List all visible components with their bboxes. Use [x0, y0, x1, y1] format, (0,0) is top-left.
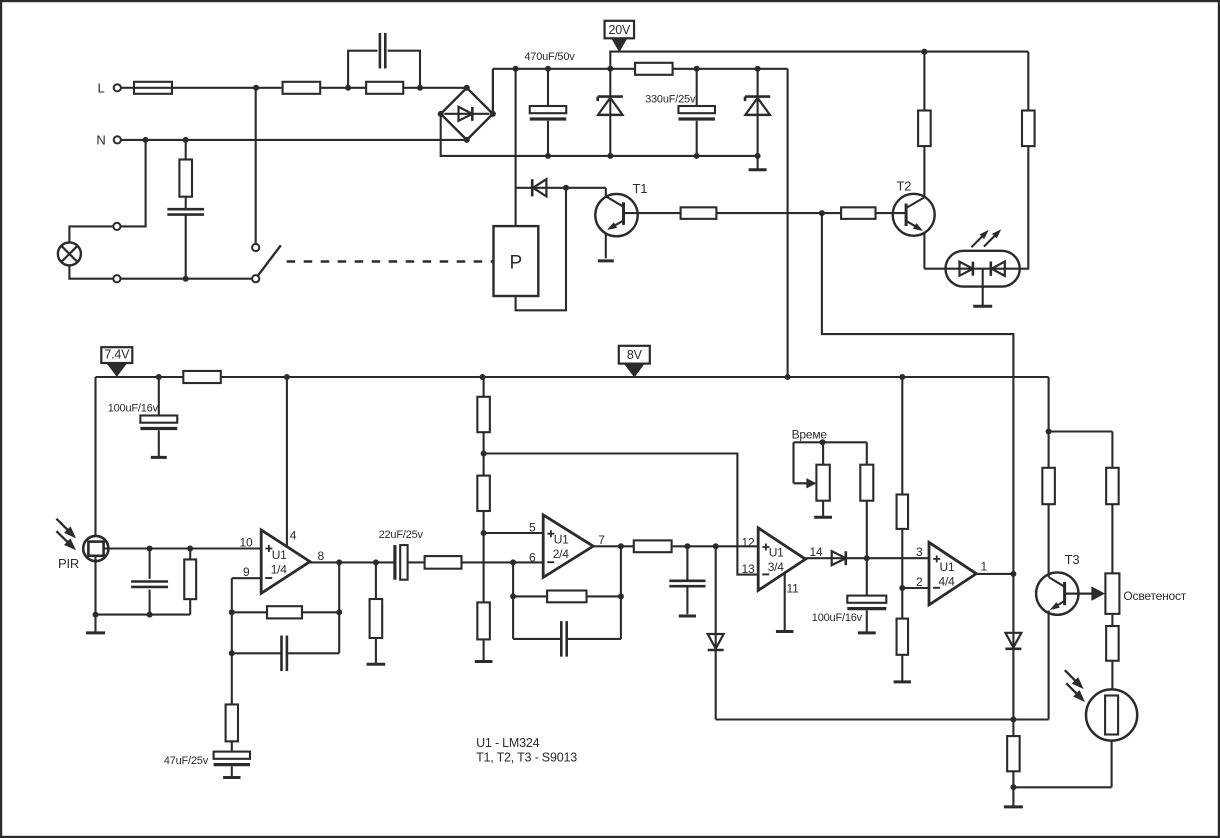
svg-text:12: 12 [742, 536, 755, 550]
svg-text:3/4: 3/4 [768, 560, 785, 574]
svg-text:8: 8 [318, 549, 325, 563]
svg-text:N: N [96, 133, 105, 148]
svg-text:U1: U1 [940, 560, 955, 574]
svg-text:100uF/16v: 100uF/16v [108, 402, 159, 414]
svg-text:P: P [510, 253, 523, 274]
svg-text:T2: T2 [897, 179, 912, 194]
svg-text:47uF/25v: 47uF/25v [164, 755, 209, 767]
svg-text:20V: 20V [608, 23, 631, 37]
svg-text:2: 2 [916, 575, 923, 589]
svg-text:T1, T2, T3 - S9013: T1, T2, T3 - S9013 [476, 750, 577, 764]
svg-text:2/4: 2/4 [553, 547, 570, 561]
svg-text:22uF/25v: 22uF/25v [379, 529, 424, 541]
svg-text:14: 14 [810, 545, 823, 559]
svg-text:U1: U1 [554, 533, 569, 547]
svg-text:8V: 8V [627, 348, 643, 362]
svg-text:PIR: PIR [58, 556, 79, 571]
svg-text:100uF/16v: 100uF/16v [812, 612, 863, 624]
svg-text:4: 4 [290, 529, 297, 543]
svg-text:U1 - LM324: U1 - LM324 [476, 736, 540, 750]
svg-text:L: L [97, 81, 104, 96]
svg-text:6: 6 [529, 551, 536, 565]
svg-text:330uF/25v: 330uF/25v [645, 94, 696, 106]
svg-text:1: 1 [981, 560, 988, 574]
svg-text:7.4V: 7.4V [104, 348, 130, 362]
svg-text:1/4: 1/4 [271, 563, 288, 577]
svg-text:U1: U1 [272, 548, 287, 562]
svg-text:5: 5 [529, 520, 536, 534]
svg-text:7: 7 [598, 533, 605, 547]
svg-text:4/4: 4/4 [939, 575, 956, 589]
svg-text:Осветеност: Осветеност [1123, 589, 1186, 603]
svg-text:9: 9 [243, 565, 250, 579]
svg-text:T1: T1 [633, 181, 648, 196]
svg-text:3: 3 [916, 545, 923, 559]
svg-text:T3: T3 [1065, 552, 1080, 567]
svg-text:U1: U1 [769, 546, 784, 560]
svg-text:10: 10 [240, 535, 253, 549]
svg-text:470uF/50v: 470uF/50v [524, 51, 575, 63]
svg-text:11: 11 [787, 582, 800, 596]
svg-text:13: 13 [742, 562, 755, 576]
